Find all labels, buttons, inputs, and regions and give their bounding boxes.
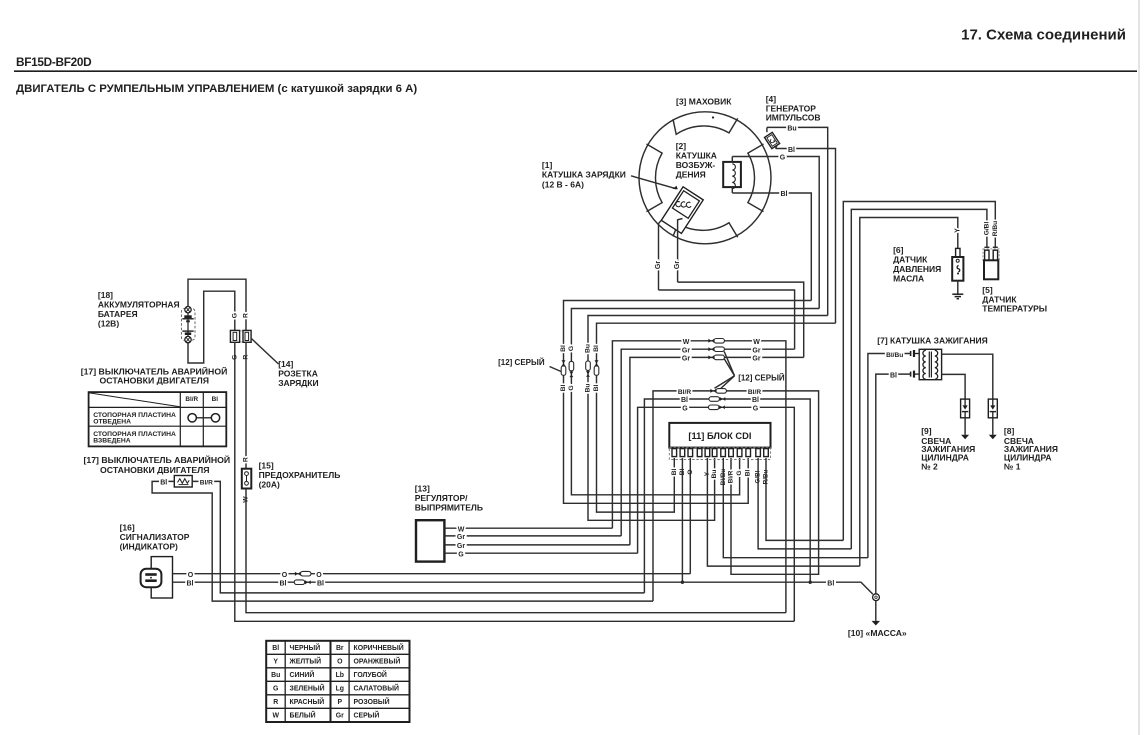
svg-text:РОЗОВЫЙ: РОЗОВЫЙ [354, 697, 390, 706]
svg-text:Bl/R: Bl/R [185, 396, 198, 403]
stop switch table [89, 392, 227, 446]
wire Y run: vertical 859.8 top to oil sensor [860, 218, 958, 567]
svg-text:Bu: Bu [585, 344, 592, 353]
svg-text:G: G [458, 552, 464, 559]
wire pulse Bl stub [776, 146, 777, 149]
svg-text:Bu: Bu [711, 470, 718, 479]
svg-text:Bl/R: Bl/R [200, 480, 213, 487]
fuse F15 [242, 469, 252, 489]
wire switch Bl left side down and to vertical 212.2 [152, 481, 653, 601]
svg-text:Bl: Bl [187, 580, 194, 587]
wire exciter coil top stub [731, 157, 733, 162]
label temp sensor [5] [982, 285, 1047, 313]
ground arrow plug 9 [961, 435, 969, 439]
svg-text:Bl: Bl [827, 580, 834, 587]
svg-text:СИГНАЛИЗАТОР: СИГНАЛИЗАТОР [120, 532, 190, 542]
svg-text:Bl: Bl [560, 384, 567, 391]
wire Bl/R line: switch Bl via 653 across to 818.6 down to CDI Bl/R pin line [653, 391, 819, 601]
label R/Bu rotated [992, 221, 999, 236]
svg-text:ЧЕРНЫЙ: ЧЕРНЫЙ [290, 643, 321, 652]
header rule [14, 70, 1137, 72]
svg-text:G: G [231, 313, 238, 318]
connector pill wire1 563.5 [561, 366, 566, 375]
svg-text:Bl: Bl [745, 470, 752, 477]
svg-text:Bl: Bl [593, 345, 600, 352]
connector bowtie Bl/R line [710, 389, 716, 393]
leader to label [14] [252, 339, 279, 364]
svg-text:ВЗВЕДЕНА: ВЗВЕДЕНА [93, 438, 131, 445]
label stop switch table [17] [81, 365, 228, 385]
wire exciter Bl to vertical 811 [732, 193, 811, 301]
wire Gr2 line [630, 357, 804, 545]
svg-text:Bu: Bu [271, 672, 280, 679]
svg-text:КАТУШКА ЗАРЯДКИ: КАТУШКА ЗАРЯДКИ [542, 170, 626, 180]
svg-text:[11] БЛОК CDI: [11] БЛОК CDI [688, 431, 751, 441]
svg-text:СИНИЙ: СИНИЙ [290, 670, 315, 679]
wire oil sensor to ground [957, 281, 959, 295]
svg-text:R/Bu: R/Bu [992, 221, 999, 236]
svg-text:Gr: Gr [674, 261, 681, 269]
svg-text:Bl: Bl [681, 397, 688, 404]
connector pill Bl/R line [716, 389, 726, 394]
svg-text:O: O [337, 659, 343, 666]
svg-text:ГОЛУБОЙ: ГОЛУБОЙ [354, 670, 387, 679]
svg-text:Bl: Bl [560, 345, 567, 352]
svg-text:G/Bl: G/Bl [983, 222, 990, 236]
ground arrow [10] [872, 621, 880, 626]
scan page edge right [1138, 0, 1140, 735]
rotated labels below connectors [560, 384, 567, 391]
indicator L16 lamp symbol [141, 569, 162, 587]
pill O line [301, 571, 311, 576]
CDI pins row [672, 449, 768, 457]
label W below fuse [243, 496, 250, 503]
connector bowtie G line [719, 405, 725, 409]
wire CDI pin R/Bu 766 down to temp sensor run [766, 458, 843, 540]
label Y rotated [954, 228, 961, 233]
labels G R above socket [231, 313, 238, 318]
temp sensor S5 [983, 247, 999, 279]
svg-text:Y: Y [954, 228, 961, 233]
svg-text:G: G [753, 405, 759, 412]
svg-text:СЕРЫЙ: СЕРЫЙ [354, 711, 380, 720]
label regulator [13] [415, 483, 483, 512]
svg-text:(ИНДИКАТОР): (ИНДИКАТОР) [120, 541, 178, 551]
wire battery plus up and over to R vertical [188, 279, 246, 330]
flywheel magnet segment top [673, 118, 738, 134]
wire Bu net: pulse Bu via connector vertical 588 to CDI Bu pin [588, 316, 828, 521]
wire regulator Gr1 stub [444, 535, 621, 537]
wire Gr1 line: regulator Gr up across to charge coil vertical [621, 349, 794, 536]
svg-text:ТЕМПЕРАТУРЫ: ТЕМПЕРАТУРЫ [982, 303, 1047, 313]
wire battery minus down and over to G vertical [188, 291, 235, 363]
svg-text:Bl/Bu: Bl/Bu [886, 352, 903, 359]
wire charge coil Gr2 horizontal to vertical 803.7 [678, 282, 804, 357]
label indicator [16] [120, 522, 190, 551]
label spark plug [8] [1004, 426, 1058, 472]
svg-text:Lg: Lg [336, 686, 344, 693]
svg-text:BF15D-BF20D: BF15D-BF20D [16, 55, 92, 69]
svg-text:ДЕНИЯ: ДЕНИЯ [676, 170, 706, 180]
pill Bl line [294, 580, 304, 585]
battery B18 symbol [181, 307, 195, 343]
svg-text:[4]: [4] [766, 94, 777, 104]
bowtie Bl line [305, 580, 311, 584]
svg-text:[16]: [16] [120, 522, 135, 532]
wire regulator Gr2 stub [444, 544, 630, 546]
svg-text:Gr: Gr [682, 356, 690, 363]
junction dot pin Bl ground [681, 581, 684, 584]
svg-text:[14]: [14] [278, 359, 293, 369]
svg-text:G: G [568, 385, 575, 390]
svg-text:ЗАРЯДКИ: ЗАРЯДКИ [278, 378, 318, 388]
svg-text:Bl: Bl [781, 191, 788, 198]
wire indicator Bl ground line [173, 581, 827, 583]
svg-text:Bl: Bl [890, 372, 897, 379]
svg-text:Bl: Bl [788, 147, 795, 154]
ignition coil terminal Bl connector [911, 371, 920, 378]
svg-text:Gr: Gr [457, 534, 465, 541]
svg-text:Gr: Gr [336, 713, 344, 720]
svg-text:[10] «МАССА»: [10] «МАССА» [848, 628, 907, 638]
svg-text:№ 2: № 2 [921, 462, 938, 472]
svg-text:Bu: Bu [787, 126, 796, 133]
svg-text:БЕЛЫЙ: БЕЛЫЙ [290, 711, 316, 720]
connector bowtie wire1 563.5 [562, 360, 566, 366]
svg-text:R: R [243, 457, 250, 462]
connector pill wire3 588 [586, 361, 591, 370]
color legend table [266, 641, 409, 722]
wire ground leader segment and diagonal [836, 582, 873, 594]
label stop switch [17] second [84, 454, 231, 475]
flywheel magnet segment bottom [673, 223, 738, 238]
ground eyelet node [10] [873, 594, 880, 601]
stop switch S17 symbol [174, 476, 192, 488]
ground under oil sensor [952, 294, 963, 299]
wire Bl net: exciter Bl via connector vertical 563.5 to CDI Bl pin [564, 301, 812, 504]
bowtie O line [295, 572, 301, 576]
svg-text:W: W [683, 339, 690, 346]
wire CDI pin Bl/Bu 723.3 down to ignition coil run [723, 458, 868, 558]
svg-text:[13]: [13] [415, 483, 430, 493]
connector bowtie Gr2 line [708, 355, 714, 359]
svg-text:КРАСНЫЙ: КРАСНЫЙ [290, 697, 325, 706]
svg-text:Bl/R: Bl/R [728, 470, 735, 483]
wire exciter coil bottom stub [731, 187, 733, 193]
svg-text:ОРАНЖЕВЫЙ: ОРАНЖЕВЫЙ [354, 657, 401, 666]
svg-text:[9]: [9] [921, 426, 932, 436]
svg-text:ВОЗБУЖ-: ВОЗБУЖ- [676, 160, 716, 170]
flywheel magnet segment right [748, 144, 764, 212]
wire CDI pin Bl 682.4 down to ground line [681, 458, 683, 582]
svg-text:[2]: [2] [676, 141, 687, 151]
svg-text:P: P [337, 699, 342, 706]
svg-text:W: W [753, 339, 760, 346]
svg-text:(20А): (20А) [259, 479, 280, 489]
ignition coil T7 [919, 349, 941, 379]
svg-text:W: W [458, 527, 465, 534]
wire pulse Bu to vertical 827.7 [767, 127, 828, 315]
svg-text:Bl: Bl [280, 580, 287, 587]
svg-text:Gr: Gr [682, 347, 690, 354]
svg-text:ОСТАНОВКИ ДВИГАТЕЛЯ: ОСТАНОВКИ ДВИГАТЕЛЯ [100, 376, 209, 386]
regulator U13 box [416, 520, 444, 561]
svg-text:Lb: Lb [336, 672, 344, 679]
svg-text:G: G [682, 405, 688, 412]
wire CDI pin Y 707.4 down to Y run [707, 458, 859, 566]
svg-text:ЖЕЛТЫЙ: ЖЕЛТЫЙ [289, 657, 322, 666]
wire fuse W down to W bottom line [246, 489, 786, 613]
connector bowtie W line [708, 339, 714, 343]
wire regulator G stub [444, 552, 637, 554]
svg-text:Bl: Bl [160, 480, 167, 487]
wire ground node down [875, 601, 877, 621]
wire CDI pin O 690.3 down to indicator O line [689, 458, 691, 574]
CDI unit U11 box [669, 423, 770, 448]
wire W line: regulator W up and across to vertical 785.9 down to fuse line [612, 341, 786, 613]
svg-text:[17] ВЫКЛЮЧАТЕЛЬ АВАРИЙНОЙ: [17] ВЫКЛЮЧАТЕЛЬ АВАРИЙНОЙ [84, 454, 231, 465]
label charging socket [14] [278, 359, 318, 388]
svg-text:R: R [243, 313, 250, 318]
flywheel circle [3] [639, 112, 771, 244]
svg-text:[1]: [1] [542, 160, 553, 170]
svg-text:R: R [273, 699, 278, 706]
svg-text:ИМПУЛЬСОВ: ИМПУЛЬСОВ [766, 113, 821, 123]
wire G line: regulator G via 637.6 across to 794.3 down to socket G line [638, 407, 795, 621]
svg-text:Bl: Bl [593, 384, 600, 391]
connector pill Gr1 line [714, 347, 724, 352]
svg-text:[6]: [6] [893, 245, 904, 255]
wire socket R down to fuse [245, 342, 247, 468]
oil pressure sensor S6 [952, 248, 963, 280]
exciter coil U2 box [723, 162, 741, 189]
connector pill Bl line [709, 397, 719, 402]
ground arrow plug 8 [989, 435, 997, 439]
connector bowtie Bl line [720, 397, 726, 401]
charging socket [14] [230, 330, 251, 342]
svg-text:ДВИГАТЕЛЬ С РУМПЕЛЬНЫМ УПРАВЛЕ: ДВИГАТЕЛЬ С РУМПЕЛЬНЫМ УПРАВЛЕНИЕМ (с ка… [16, 83, 417, 95]
svg-text:Gr: Gr [457, 543, 465, 550]
label charge coil [1] [542, 160, 626, 190]
label oil pressure sensor [6] [893, 245, 941, 283]
svg-text:Bl: Bl [272, 645, 279, 652]
svg-text:ОСТАНОВКИ ДВИГАТЕЛЯ: ОСТАНОВКИ ДВИГАТЕЛЯ [100, 465, 209, 475]
svg-text:Bl: Bl [317, 580, 324, 587]
svg-text:17. Схема соединений: 17. Схема соединений [961, 27, 1126, 44]
svg-text:ЗЕЛЕНЫЙ: ЗЕЛЕНЫЙ [290, 684, 325, 693]
labels G R below socket [231, 355, 238, 360]
connector bowtie wire4 596.5 [595, 360, 599, 366]
svg-text:(12 В - 6А): (12 В - 6А) [542, 180, 584, 190]
svg-text:Gr: Gr [752, 347, 760, 354]
svg-text:ОТВЕДЕНА: ОТВЕДЕНА [93, 419, 131, 426]
svg-text:ВЫПРЯМИТЕЛЬ: ВЫПРЯМИТЕЛЬ [415, 503, 483, 513]
svg-text:САЛАТОВЫЙ: САЛАТОВЫЙ [354, 684, 399, 693]
svg-text:Y: Y [273, 659, 278, 666]
flywheel magnet segment left [647, 144, 663, 212]
CDI pin labels rotated [671, 469, 678, 476]
label spark plug [9] [921, 426, 975, 472]
svg-text:№ 1: № 1 [1004, 462, 1021, 472]
leader from label [1] to charge coil [631, 176, 678, 189]
wire CDI pin G/Bl 758.1 down to temp sensor run [758, 458, 851, 549]
svg-text:O: O [282, 572, 288, 579]
svg-text:Bl: Bl [212, 396, 219, 403]
wire G/Bl run: vertical 851.3 top to temp sensor [851, 209, 987, 549]
wire indicator O line to CDI O pin [173, 573, 691, 575]
label R above fuse [243, 457, 250, 462]
spark plug P8 [988, 399, 997, 418]
wire pulse generator Bu stub [766, 127, 768, 132]
svg-text:(12В): (12В) [98, 318, 119, 328]
connector pill W line [714, 339, 724, 344]
label fuse [15] [259, 460, 341, 489]
connector bowtie wire2 571.4 [569, 372, 573, 378]
label battery [18] [98, 290, 180, 328]
pulse generator G1 body [765, 132, 780, 148]
connector bowtie wire3 588 [586, 371, 590, 377]
connector bowtie Gr1 line [708, 347, 714, 351]
connector pill wire2 571.4 [569, 361, 574, 370]
wire charge coil Gr stub 1 [659, 220, 662, 290]
wire pulse Bl to vertical 835.5 [776, 149, 836, 324]
label Gr rotated on wire 2 [674, 261, 681, 269]
wire exciter coil G to vertical 819 [732, 157, 819, 309]
CDI connector dashed strip [669, 448, 770, 460]
wire R/Bu run: vertical 843.3 top to temp sensor [843, 202, 995, 541]
indicator bracket box [151, 557, 172, 598]
svg-text:[8]: [8] [1004, 426, 1015, 436]
connector pill wire4 596.5 [594, 366, 599, 375]
wire ignition secondary to plug 8 [942, 354, 993, 399]
wire plug 9 to ground arrow [964, 418, 966, 435]
junction dot Bl line to ground line [809, 581, 812, 584]
wire ignition secondary to plug 9 [942, 374, 966, 399]
svg-text:W: W [272, 713, 279, 720]
leaders [12] right [715, 352, 735, 390]
connector pill Gr2 line [714, 355, 724, 360]
leader [12] left [550, 367, 562, 372]
svg-text:G: G [568, 346, 575, 351]
wire charge coil Gr1 horizontal to vertical 794.6 [659, 290, 795, 349]
flywheel keyway dot [712, 116, 714, 118]
label G/Bl rotated [983, 222, 990, 236]
svg-text:Gr: Gr [752, 356, 760, 363]
rotated labels above connectors [560, 345, 567, 352]
label Gr rotated on wire 1 [655, 261, 662, 269]
svg-text:O: O [188, 572, 194, 579]
svg-text:G: G [273, 686, 278, 693]
svg-text:G: G [780, 155, 786, 162]
wire socket G down to G bottom line [235, 342, 795, 621]
wire switch Bl/R right side down to line 592.9 [192, 481, 644, 593]
svg-text:G: G [736, 470, 743, 475]
spark plug P9 [961, 399, 970, 418]
wire ignition coil Bl/Bu to vertical 867.9 [868, 354, 911, 558]
svg-text:O: O [316, 572, 322, 579]
svg-text:[15]: [15] [259, 460, 274, 470]
ignition coil terminal Bl/Bu connector [911, 350, 920, 357]
svg-text:Bl/R: Bl/R [678, 389, 691, 396]
svg-text:Gr: Gr [655, 261, 662, 269]
wire Bl line: switch Bl/R via 644.4 across to 810.3 down to ground line T [644, 399, 810, 593]
svg-text:Bl/R: Bl/R [748, 389, 761, 396]
label exciter coil [2] [676, 141, 717, 180]
svg-text:Bl: Bl [671, 469, 678, 476]
wire ignition coil Bl to ground node [876, 374, 911, 594]
wire charge coil Gr stub 2 [678, 219, 683, 283]
svg-text:[12] СЕРЫЙ: [12] СЕРЫЙ [498, 358, 545, 367]
svg-text:Bl: Bl [752, 397, 759, 404]
svg-text:КОРИЧНЕВЫЙ: КОРИЧНЕВЫЙ [354, 643, 404, 652]
connector pill G line [709, 405, 719, 410]
wire plug 8 to ground arrow [992, 418, 994, 435]
legend texts [271, 643, 404, 720]
svg-text:КАТУШКА: КАТУШКА [676, 150, 717, 160]
svg-text:ПРЕДОХРАНИТЕЛЬ: ПРЕДОХРАНИТЕЛЬ [259, 470, 341, 480]
svg-text:Br: Br [336, 645, 344, 652]
wire Bl net: pulse Bl via connector vertical 596.5 to CDI Bl pin 1 [597, 323, 836, 512]
charge coil T1 body [661, 187, 703, 234]
svg-text:Bu: Bu [585, 383, 592, 392]
svg-text:[7] КАТУШКА ЗАЖИГАНИЯ: [7] КАТУШКА ЗАЖИГАНИЯ [877, 335, 987, 345]
svg-text:[3] МАХОВИК: [3] МАХОВИК [676, 97, 732, 107]
wire G net: exciter G via connector vertical 571.4 to CDI G pin [571, 309, 819, 495]
svg-text:[12] СЕРЫЙ: [12] СЕРЫЙ [738, 373, 785, 382]
label pulse generator [4] [766, 94, 821, 123]
svg-text:МАСЛА: МАСЛА [893, 273, 924, 283]
wire regulator W stub [444, 527, 612, 529]
